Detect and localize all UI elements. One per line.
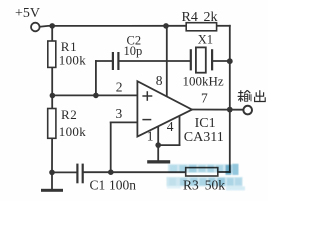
svg-text:C1: C1 [90,178,106,193]
svg-text:X1: X1 [198,33,213,47]
svg-text:7: 7 [201,91,208,106]
svg-text:IC1: IC1 [195,116,216,131]
svg-text:1: 1 [147,129,154,144]
svg-text:100n: 100n [109,178,136,193]
svg-text:R4: R4 [182,10,198,25]
svg-text:100kHz: 100kHz [183,74,224,89]
svg-text:100k: 100k [59,124,86,139]
svg-text:+5V: +5V [15,6,40,21]
svg-text:8: 8 [156,73,163,88]
svg-text:4: 4 [167,119,174,134]
svg-text:2: 2 [116,79,123,94]
svg-text:CA311: CA311 [184,130,224,145]
svg-text:R2: R2 [61,107,77,122]
svg-text:2k: 2k [204,10,218,25]
svg-text:10p: 10p [124,44,143,58]
svg-text:3: 3 [116,106,123,121]
svg-text:100k: 100k [59,52,86,67]
